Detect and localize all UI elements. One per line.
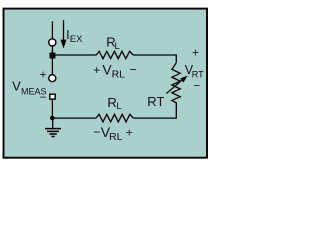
svg-text:RL: RL <box>112 69 126 81</box>
svg-text:L: L <box>115 41 120 52</box>
svg-text:+: + <box>40 70 47 82</box>
svg-text:R: R <box>107 95 116 110</box>
node A junction square <box>50 53 56 59</box>
thermistor RT zigzag <box>172 63 180 103</box>
svg-text:RT: RT <box>192 69 204 79</box>
ground stem <box>52 118 54 128</box>
wire: bottom RL to ground node B <box>52 117 96 119</box>
resistor RL (top) <box>96 51 133 58</box>
wire: node A to top resistor RL <box>52 54 96 56</box>
wire: top RL to RT top corner <box>133 55 176 63</box>
wiper arrow of RT <box>166 76 187 94</box>
svg-text:−: − <box>130 62 137 76</box>
svg-text:L: L <box>116 101 121 112</box>
svg-text:+: + <box>192 48 199 60</box>
wire: node A down to V_MEAS + terminal <box>51 56 53 79</box>
current arrow I_EX <box>60 20 66 48</box>
svg-text:RT: RT <box>147 94 164 109</box>
svg-text:RL: RL <box>109 131 123 143</box>
wire: RT bottom to bottom rail corner <box>133 102 176 118</box>
terminal: excitation top (open circle) <box>49 39 56 46</box>
wire: V_MEAS - terminal down to node B <box>51 97 53 118</box>
terminal: V_MEAS + (open circle) <box>49 75 56 82</box>
wire: top excitation lead into node A <box>51 22 53 56</box>
svg-text:−: − <box>93 125 100 139</box>
svg-text:−: − <box>40 92 47 104</box>
terminal: V_MEAS - (open square) <box>50 94 55 99</box>
svg-text:+: + <box>126 125 133 139</box>
panel background <box>4 9 208 158</box>
svg-text:−: − <box>194 80 201 92</box>
svg-text:V: V <box>12 78 21 93</box>
svg-text:EX: EX <box>70 34 83 45</box>
ground symbol <box>45 129 61 137</box>
resistor RL (bottom) <box>96 114 133 122</box>
svg-text:+: + <box>93 65 100 77</box>
node B junction dot <box>50 116 55 121</box>
